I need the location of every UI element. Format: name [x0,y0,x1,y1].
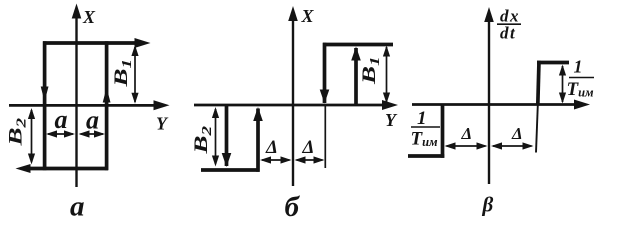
svg-text:1: 1 [574,57,583,77]
B1 dimension arrow panel b [383,46,390,104]
label dx/dt fraction panel v [497,7,521,43]
B2 dimension arrow panel a [28,108,35,165]
thin tick below axis at +delta panel b [324,106,326,168]
X axis (vertical) panel b [288,6,298,186]
Y axis (horizontal) panel b [194,100,398,110]
X axis (vertical) panel a [72,4,82,188]
label B2 panel a (rotated) [5,118,29,147]
svg-text:dt: dt [500,24,516,43]
dimension a (left) double arrow panel a [46,130,75,137]
down transition (negative side) with arrow panel b [222,105,232,167]
svg-text:a: a [55,105,68,134]
up transition (negative side) with arrow panel b [253,107,263,172]
down transition with arrow panel b [320,43,330,104]
svg-text:X: X [82,7,96,27]
up transition with arrow panel b [351,47,361,106]
svg-text:Δ: Δ [511,124,523,143]
right transition panel v [536,61,539,153]
loop bottom line with left arrow, panel a [16,164,109,173]
delta dimension left panel b [260,156,292,163]
left transition panel v [441,105,445,158]
svg-text:a: a [70,191,85,223]
B2 dimension arrow panel b [212,107,219,167]
svg-text:1: 1 [417,108,427,129]
delta dimension left panel v [445,142,488,149]
loop right vertical with up arrow, panel a [103,41,111,170]
label 1/Tim left fraction panel v [411,108,441,150]
label B2 panel b (rotated) [191,126,215,155]
dimension a (right) double arrow panel a [79,130,106,137]
svg-text:б: б [285,191,301,222]
hysteresis loop top line with right arrow, panel a [43,38,151,48]
lower step line panel v [408,154,444,158]
svg-text:a: a [86,106,99,135]
svg-text:X: X [301,6,315,26]
svg-text:Δ: Δ [265,137,278,158]
label B1 panel a (rotated) [111,59,135,88]
label 1/Tim right fraction panel v [567,57,595,101]
B1 dimension arrow panel a [131,45,138,104]
bottom step line panel b [201,168,260,172]
delta dimension right panel v [491,142,534,149]
loop left vertical with down arrow, panel a [41,41,49,170]
Y axis (horizontal) panel a [9,100,170,110]
1/Tim dimension arrow panel v [559,65,566,104]
svg-text:Δ: Δ [461,124,473,143]
svg-text:Δ: Δ [302,137,315,158]
svg-text:β: β [482,193,494,217]
top step line panel b [323,43,393,47]
label B1 panel b (rotated) [359,56,383,85]
horizontal axis panel v [412,100,590,110]
delta dimension right panel b [295,156,325,163]
dx/dt axis (vertical) panel v [484,7,494,184]
upper step line panel v [537,61,569,65]
